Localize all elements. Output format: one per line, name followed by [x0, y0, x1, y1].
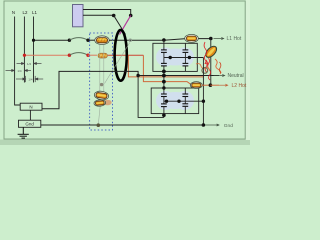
wire L2 to fuse [88, 54, 97, 56]
wire bridge2 left branch mid [163, 97, 165, 104]
svg-text:1/4: 1/4 [28, 77, 33, 81]
wire bridge1 middle row [164, 57, 204, 59]
wire bridge1 left branch mid [163, 52, 165, 63]
wire L2 through toroid red [108, 54, 144, 56]
MOV M3 top-right [183, 50, 189, 53]
MOV M6 bottom-left [161, 104, 167, 107]
arrow L1 Hot [214, 37, 224, 39]
trip linkage gray lines [98, 43, 130, 125]
wire L2 vertical [23, 17, 25, 83]
toroid CT core [115, 30, 127, 81]
wire L1 vertical [33, 17, 35, 83]
MOV M1 top-left [161, 50, 167, 53]
terminal box N [20, 103, 42, 110]
wire ground bus [41, 124, 204, 126]
node bridge2 top [162, 86, 165, 89]
MOV bridge 1 box [153, 43, 197, 71]
wire L2 branch orange A [128, 55, 204, 77]
wire L1 to fuse [88, 39, 95, 41]
node L1 hot [209, 37, 213, 41]
svg-text:Neutral: Neutral [228, 73, 244, 79]
spark gap lower L2-L1 [16, 76, 43, 82]
svg-text:Gnd: Gnd [224, 123, 233, 129]
wire bridge1 mid to V2 [202, 58, 204, 126]
wire L2 main corner B [143, 55, 192, 85]
node bridge1 mid b [188, 56, 191, 59]
toroid winding terminal [129, 39, 131, 41]
node bridge1 mid a [169, 56, 172, 59]
bus wire bridge1 to bridge2 [163, 71, 165, 88]
node bridge2 mid b [177, 100, 180, 103]
spark gap L2-L1 [17, 63, 42, 65]
wire bridge1 left branch bottom [163, 66, 165, 72]
MOV bridge 2 blue halo [156, 91, 194, 110]
node bus-L2b [162, 80, 166, 84]
wire bridge2 right branch mid [184, 97, 186, 104]
spark gap N-L2 [6, 70, 32, 72]
node bridge2 bottom [162, 113, 166, 117]
wire L2 horizontal red [24, 54, 69, 56]
svg-text:1/4: 1/4 [17, 69, 22, 73]
wire bridge1 right branch mid [184, 52, 186, 63]
fuse F3 output L1 [185, 34, 199, 42]
svg-text:L2 Hot: L2 Hot [232, 83, 247, 89]
fuse F4 blown rotated [204, 44, 219, 59]
wire bridge2 right branch bottom [184, 107, 186, 114]
wire L2 hot out [202, 84, 210, 86]
node L1 junction [32, 39, 35, 42]
thermal element T2 [94, 99, 106, 106]
MOV bridge 2 box [151, 88, 199, 114]
wire L1 through toroid [109, 39, 211, 41]
wire bridge2 middle row [164, 100, 204, 102]
wire neutral from N box [42, 71, 220, 108]
breaker contact L1 [68, 39, 71, 42]
svg-text:N: N [12, 10, 15, 15]
fuse F1 [95, 36, 109, 45]
node neutral jog [136, 74, 139, 77]
svg-text:N: N [29, 105, 32, 110]
annotation red scribbles [196, 42, 221, 80]
wire N box to Gnd box [29, 110, 31, 120]
window right strip [246, 0, 250, 140]
wire relay top to toroid [83, 10, 131, 16]
node bridge2 mid a [165, 100, 168, 103]
fuse F5 L2 output [190, 82, 202, 89]
node bridge1 bottom [162, 70, 166, 74]
wire diagonal black into toroid [114, 16, 126, 35]
node L2 junction red [23, 54, 26, 57]
svg-text:1/4: 1/4 [27, 62, 32, 66]
node bus-neutral [162, 74, 166, 78]
MOV M4 bottom-right [183, 63, 189, 66]
wire bridge1 left branch top [163, 40, 165, 50]
wire diagonal magenta into toroid [120, 16, 131, 35]
node relay wire A [129, 14, 133, 18]
window bottom strip [0, 140, 250, 146]
node L2 hot [209, 83, 213, 87]
svg-text:L1 Hot: L1 Hot [227, 36, 242, 42]
arrow L2 Hot [219, 84, 228, 86]
wire bridge2 left branch bottom [163, 107, 165, 118]
ground symbol [18, 127, 29, 138]
dashed protection module box [90, 33, 113, 130]
svg-text:Gnd: Gnd [25, 122, 34, 127]
svg-text:L2: L2 [23, 10, 28, 15]
node L1 to bridge 1 [162, 38, 166, 42]
wire bridge2 outer ground loop [138, 76, 164, 118]
wire bridge1 right branch top [184, 44, 186, 51]
MOV M5 top-left [161, 94, 167, 97]
thermal element T2 shadow [103, 100, 111, 106]
wire bridge2 right branch top [184, 88, 186, 94]
node V2 ground [202, 123, 206, 127]
MOV M7 top-right [182, 94, 188, 97]
fuse F2 thermal [98, 53, 107, 58]
arrow Neutral [214, 74, 225, 76]
node relay wire B [112, 14, 116, 18]
MOV bridge 1 blue halo [156, 48, 194, 67]
border frame [4, 1, 245, 139]
wire V1 L1 to L2 [210, 39, 212, 86]
MOV M8 bottom-right [182, 104, 188, 107]
arrow Gnd [205, 124, 219, 126]
annotation gray circle [202, 68, 208, 74]
thermal element T1 [94, 90, 109, 100]
wire L1 horizontal [34, 39, 70, 41]
node V2 bridge2 mid [202, 100, 205, 103]
wire bridge1 right branch bottom [184, 66, 186, 72]
terminal box Gnd [19, 120, 41, 127]
relay solenoid box [73, 5, 84, 27]
wire relay bottom [83, 14, 114, 16]
wire bridge2 left branch top [163, 88, 165, 94]
breaker contact L2 [68, 54, 71, 57]
node trip to ground [97, 123, 101, 127]
wire N vertical [15, 17, 21, 106]
svg-text:L1: L1 [32, 10, 37, 15]
trip pivot [100, 83, 103, 86]
MOV M2 bottom-left [161, 63, 167, 66]
